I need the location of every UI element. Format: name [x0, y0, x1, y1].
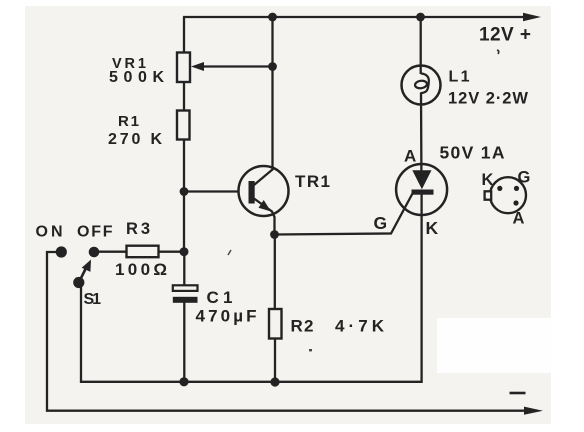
svg-text:G: G — [518, 169, 531, 187]
wire: SCR cathode down and bottom common rail — [81, 195, 422, 382]
thyristor SCR circle — [396, 164, 447, 215]
node: junction dot R3 / C1 / divider — [180, 247, 189, 256]
wire: +12V top supply rail with right arrowhead — [183, 13, 541, 21]
wire: ON terminal to negative bottom rail with arrowhead — [47, 252, 543, 415]
connector tab — [485, 191, 492, 199]
node: junction dot base node — [180, 187, 189, 196]
svg-text:R1: R1 — [118, 113, 139, 130]
connector plug circle (SCR base view) — [490, 177, 526, 213]
svg-text:470µF: 470µF — [196, 307, 257, 326]
switch S1 pole dot — [73, 277, 84, 288]
transistor TR1 base bar — [249, 181, 255, 204]
svg-text:K: K — [426, 218, 439, 238]
wire: emitter node down to R2 — [274, 235, 276, 310]
svg-text:A: A — [404, 147, 416, 166]
wire: VR1 to R1 — [183, 82, 185, 111]
wire: gate wire from emitter node to SCR gate — [275, 194, 413, 235]
label: minus sign above bottom arrow — [510, 392, 526, 395]
resistor R2 body — [269, 309, 282, 339]
thyristor SCR anode triangle — [412, 170, 431, 189]
wire: lamp to SCR anode — [420, 93, 423, 172]
node: junction dot R2 / rail — [270, 377, 279, 386]
svg-text:TR1: TR1 — [295, 172, 330, 191]
svg-text:OFF: OFF — [77, 224, 113, 241]
svg-text:G: G — [374, 213, 388, 233]
node: junction dot wiper/collector line — [268, 62, 277, 71]
connector pin G dot — [514, 186, 519, 191]
capacitor C1 bottom plate — [173, 297, 198, 303]
transistor TR1 collector stroke and wire up to rail — [254, 17, 273, 185]
wire: R2 to bottom common rail — [274, 339, 276, 383]
capacitor C1 top plate — [173, 285, 198, 291]
switch S1 arm with arrowhead — [79, 260, 91, 283]
svg-text:R2: R2 — [291, 317, 314, 336]
wire: divider node down to C1 — [183, 252, 185, 286]
svg-text:270 K: 270 K — [108, 131, 162, 148]
svg-text:S1: S1 — [84, 291, 102, 308]
svg-text:12V +: 12V + — [479, 25, 531, 46]
switch S1 OFF terminal dot — [89, 247, 100, 258]
wire: C1 to bottom rail — [183, 303, 185, 382]
connector pin K dot — [497, 186, 502, 191]
wire: left vertical from top rail to VR1 — [183, 17, 185, 53]
switch S1 ON terminal dot — [56, 246, 67, 257]
svg-text:100Ω: 100Ω — [115, 260, 167, 279]
transistor TR1 circle — [239, 166, 289, 216]
wire: R1 down to base node and R3 node — [183, 140, 185, 253]
connector pin A dot — [513, 200, 518, 205]
potentiometer VR1 wiper arrow wire — [191, 62, 273, 71]
node: junction dot C1 / rail — [179, 377, 188, 386]
svg-text:4·7K: 4·7K — [335, 317, 385, 336]
lamp L1 circle — [402, 66, 441, 105]
node: junction dot emitter / gate wire — [270, 230, 279, 239]
node: junction dot top rail / L1 anode branch — [416, 13, 425, 22]
transistor TR1 emitter stroke with arrowhead — [254, 199, 275, 235]
wire: OFF terminal to R3 — [94, 251, 127, 253]
svg-text:K: K — [482, 171, 494, 189]
wire: rail to lamp anode — [420, 17, 422, 74]
resistor R3 body — [127, 246, 159, 258]
svg-text:12V 2·2W: 12V 2·2W — [448, 90, 528, 108]
resistor R1 body — [177, 111, 190, 140]
potentiometer VR1 body — [177, 53, 190, 83]
wire: R3 to C1 node — [159, 251, 185, 253]
wire: base wire to TR1 — [184, 190, 239, 192]
lamp L1 filament — [415, 74, 429, 94]
thyristor SCR cathode bar — [412, 190, 434, 195]
svg-text:A: A — [513, 210, 525, 228]
node: junction dot top rail / TR1 collector — [268, 13, 277, 22]
